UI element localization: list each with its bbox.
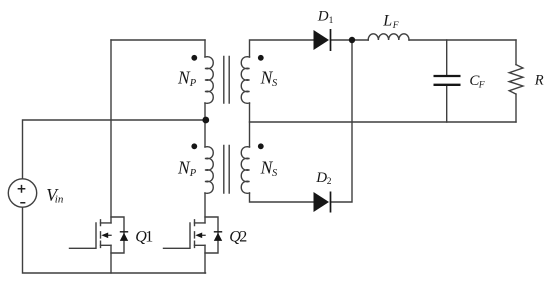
svg-text:P: P <box>189 168 197 179</box>
svg-text:F: F <box>478 80 485 90</box>
svg-text:1: 1 <box>145 229 153 246</box>
svg-text:S: S <box>272 78 278 89</box>
svg-text:P: P <box>189 78 197 89</box>
svg-text:1: 1 <box>329 16 334 26</box>
svg-text:2: 2 <box>239 229 247 246</box>
svg-text:D: D <box>317 8 329 24</box>
svg-text:S: S <box>272 168 278 179</box>
svg-text:L: L <box>382 13 392 30</box>
svg-text:R: R <box>534 73 544 89</box>
svg-text:in: in <box>55 193 64 205</box>
svg-text:2: 2 <box>327 177 332 187</box>
svg-text:F: F <box>392 21 399 31</box>
svg-text:D: D <box>315 170 327 186</box>
